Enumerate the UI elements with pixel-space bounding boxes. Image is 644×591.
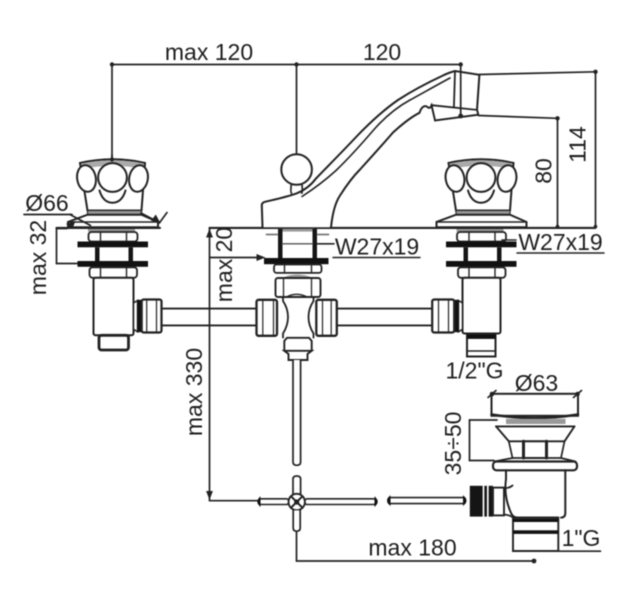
actuator taper xyxy=(504,486,513,518)
O66 leader arrows xyxy=(66,213,167,229)
cross lower rod xyxy=(293,510,300,531)
svg-text:Ø66: Ø66 xyxy=(25,190,68,216)
pop-up cross joint xyxy=(289,494,305,510)
actuator rod segment xyxy=(388,498,466,504)
tee upper hex xyxy=(276,278,321,297)
svg-text:W27x19: W27x19 xyxy=(335,234,419,260)
right mounting ring xyxy=(457,232,506,242)
right valve body xyxy=(463,278,501,334)
tee lower collar xyxy=(284,338,311,351)
right handle knob xyxy=(444,159,519,210)
tee body column xyxy=(283,297,314,338)
dimension 80 xyxy=(479,116,560,229)
cross left arm xyxy=(258,499,288,505)
left valve side port wedge xyxy=(134,301,138,332)
supply pipe left xyxy=(162,309,257,326)
actuator ring xyxy=(493,488,504,516)
center threaded shank W27x19 xyxy=(267,229,329,258)
drain body xyxy=(505,470,565,517)
O63 end ticks xyxy=(488,391,582,398)
spout inner top line xyxy=(302,78,450,197)
right handle rosette xyxy=(437,215,527,228)
tee right hex port xyxy=(316,300,337,336)
right port hex nut xyxy=(432,300,454,333)
ball stem xyxy=(291,184,303,193)
aerator xyxy=(432,105,479,120)
center locknut xyxy=(274,265,322,273)
underline W27x19 right xyxy=(517,252,604,254)
drain flange xyxy=(493,462,577,471)
dimension max 330 xyxy=(206,228,288,501)
left mounting ring xyxy=(89,232,138,242)
left handle base shade xyxy=(88,211,142,215)
right handle base shade xyxy=(456,211,510,215)
cross right arm xyxy=(305,499,377,505)
drain tailpiece 1G xyxy=(513,518,558,551)
dimension max 180 xyxy=(297,531,537,563)
dimension 35-50 xyxy=(470,420,498,461)
spout tip edge xyxy=(454,72,455,108)
left port hex nut xyxy=(142,300,162,333)
right shank shade xyxy=(457,229,504,232)
deck line right segment xyxy=(210,227,596,229)
svg-text:max 20: max 20 xyxy=(211,227,237,302)
left locknut xyxy=(90,267,138,278)
right locknut xyxy=(458,267,506,278)
dimension O66 xyxy=(24,214,72,216)
supply pipe right xyxy=(337,309,432,326)
pop-up rod upper xyxy=(293,360,301,465)
drain plug cap xyxy=(492,394,579,418)
leader W27x19 left xyxy=(317,243,334,245)
dimension max 32 xyxy=(57,228,79,264)
svg-text:35÷50: 35÷50 xyxy=(440,412,466,476)
svg-text:1/2"G: 1/2"G xyxy=(445,358,503,384)
svg-text:max 330: max 330 xyxy=(181,348,207,436)
left handle knob xyxy=(75,155,150,211)
right port ring xyxy=(454,300,458,332)
left valve body xyxy=(94,278,134,336)
svg-text:120: 120 xyxy=(363,39,401,65)
leader W27x19 right xyxy=(502,239,516,241)
tee left hex port xyxy=(257,300,278,336)
right threaded shank xyxy=(464,247,502,261)
ball knob xyxy=(281,154,312,185)
right washer 2 xyxy=(446,261,517,267)
left washer 2 xyxy=(78,261,149,267)
svg-text:114: 114 xyxy=(565,126,591,163)
right valve tailpiece 1/2G xyxy=(467,334,496,357)
1G reference line xyxy=(513,550,601,552)
center shank shade xyxy=(279,229,315,232)
spout body xyxy=(262,71,480,227)
svg-text:max 120: max 120 xyxy=(165,39,253,65)
center washer xyxy=(264,258,329,264)
drain seal shade xyxy=(506,419,566,424)
right washer 1 xyxy=(446,242,517,248)
left washer 1 xyxy=(78,242,149,248)
svg-text:1"G: 1"G xyxy=(562,525,601,551)
right valve side port wedge xyxy=(459,301,463,332)
left valve inlet stub xyxy=(99,335,129,350)
left port ring xyxy=(138,300,142,332)
svg-text:max 32: max 32 xyxy=(25,220,51,295)
svg-text:max 180: max 180 xyxy=(368,535,456,561)
dimension max 120 xyxy=(110,62,299,161)
deck line left segment xyxy=(57,227,161,229)
drain cone xyxy=(496,426,575,441)
tee lower nut xyxy=(284,351,311,360)
left shank shade xyxy=(88,229,135,232)
pop-up rod mid segment xyxy=(293,476,301,494)
dimension 120 xyxy=(297,62,463,153)
center chamfer shade xyxy=(283,275,313,278)
svg-text:W27x19: W27x19 xyxy=(518,229,602,255)
left handle rosette xyxy=(68,215,158,228)
dimension 114 xyxy=(479,70,597,229)
drain square section xyxy=(495,441,576,461)
dimension max 20 xyxy=(210,254,266,261)
svg-text:Ø63: Ø63 xyxy=(515,370,558,396)
left threaded shank xyxy=(95,247,133,261)
actuator knurled knob xyxy=(470,486,493,517)
svg-text:80: 80 xyxy=(531,158,557,184)
extension line outlet center xyxy=(458,65,463,119)
underline W27x19 left xyxy=(333,257,420,259)
